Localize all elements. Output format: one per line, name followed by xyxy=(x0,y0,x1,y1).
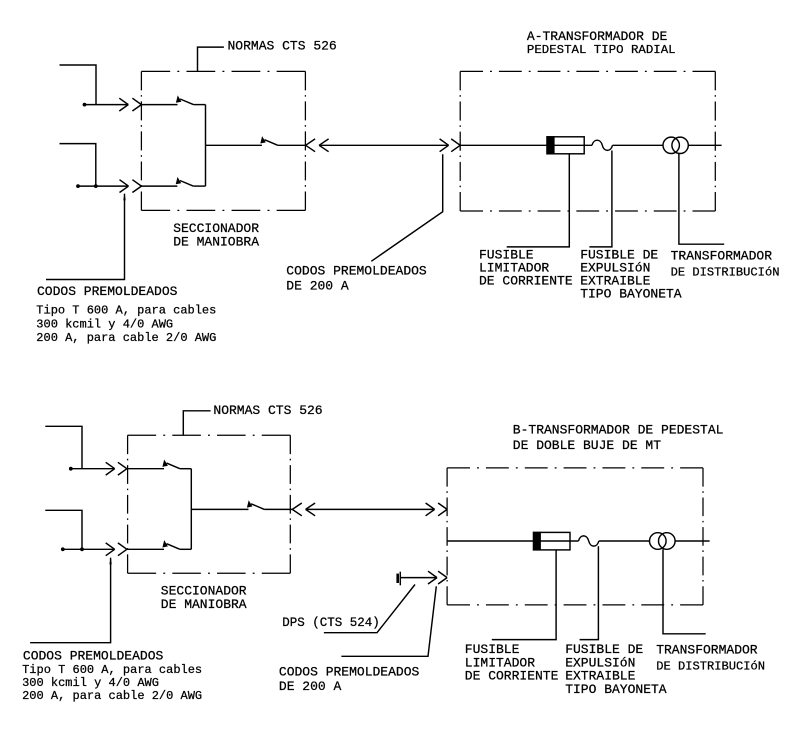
svg-text:CODOS PREMOLDEADOS: CODOS PREMOLDEADOS xyxy=(279,664,420,679)
box: transformador A dashed enclosure xyxy=(460,71,715,211)
switch S2 blade xyxy=(176,177,194,186)
wire: bus to output switch (bottom) xyxy=(191,508,248,510)
fuse F1 cap filled xyxy=(546,136,554,154)
connector: elbow chevron 2a (bottom) xyxy=(106,543,115,556)
node: feeder 1 terminal dot (bottom) xyxy=(69,467,73,471)
connector: entry chevron right 2 (bottom) xyxy=(438,503,447,516)
wire: DPS to box edge xyxy=(401,577,437,579)
switch S3 blade (bottom) xyxy=(247,500,265,509)
wire: bus to output switch xyxy=(206,144,262,146)
connector: DPS chevron 2 xyxy=(438,571,447,584)
svg-text:DE MANIOBRA: DE MANIOBRA xyxy=(161,597,247,612)
wire: input feeder 1 elbow stub (bottom) xyxy=(45,426,82,468)
svg-text:DE DISTRIBUCIóN: DE DISTRIBUCIóN xyxy=(656,659,765,673)
leader: fusible limitador (top) xyxy=(507,154,570,247)
leader: NORMAS CTS 526 (bottom) xyxy=(183,411,210,436)
wire: feeder 2 inside box xyxy=(141,185,177,187)
fuse F1 current limiting body (bottom) xyxy=(534,532,571,550)
wire: vertical bus (bottom) xyxy=(190,469,192,550)
connector: exit chevron left 1 xyxy=(306,139,316,152)
wire: S1 to bus xyxy=(193,104,205,106)
connector: exit chevron left 2 xyxy=(319,139,329,152)
leader: fusible expulsion (bottom) xyxy=(580,546,599,639)
wire: feeder 1 horizontal (bottom) xyxy=(71,468,115,470)
leader: transformador distribucion (bottom) xyxy=(663,549,706,634)
svg-text:PEDESTAL TIPO RADIAL: PEDESTAL TIPO RADIAL xyxy=(527,43,676,57)
switch S3 blade xyxy=(260,136,278,145)
wire: link between boxes (bottom) xyxy=(306,508,435,510)
wire: S2 to bus xyxy=(193,185,205,187)
leader: transformador distribucion (top) xyxy=(679,154,724,245)
fuse F2 expulsion squiggle (bottom) xyxy=(579,536,599,546)
connector: exit chevron left 1 (bottom) xyxy=(292,503,302,516)
svg-text:DE MANIOBRA: DE MANIOBRA xyxy=(173,235,259,250)
svg-text:DE DISTRIBUCIóN: DE DISTRIBUCIóN xyxy=(671,266,780,280)
svg-text:DPS (CTS 524): DPS (CTS 524) xyxy=(282,616,380,630)
wire: feeder 2 horizontal (bottom) xyxy=(63,548,115,550)
svg-text:DE CORRIENTE: DE CORRIENTE xyxy=(479,274,573,289)
connector: entry chevron right 2 xyxy=(451,139,460,152)
transformer T1 circle 1 xyxy=(663,137,679,153)
wire: S3 to box edge xyxy=(278,144,306,146)
node: feeder 2 terminal dot xyxy=(76,184,80,188)
leader: codos premoldeados left (bottom) with up arrow xyxy=(109,557,111,564)
connector: elbow chevron 2a xyxy=(120,180,129,193)
leader: fusible expulsion (top) xyxy=(589,151,612,247)
leader: NORMAS CTS 526 (top) xyxy=(198,47,224,71)
wire: squiggle to transformer xyxy=(613,144,664,146)
fuse F1 cap filled (bottom) xyxy=(533,532,541,551)
svg-text:200 A, para cable 2/0 AWG: 200 A, para cable 2/0 AWG xyxy=(36,331,216,345)
connector: elbow chevron 1b xyxy=(132,98,141,111)
svg-text:DE CORRIENTE: DE CORRIENTE xyxy=(465,669,559,684)
wire: feeder 1 inside box (bottom) xyxy=(127,468,164,470)
connector: entry chevron right 1 (bottom) xyxy=(426,503,435,516)
wire: input feeder 1 elbow stub xyxy=(60,65,97,105)
connector: elbow chevron 1b (bottom) xyxy=(118,462,127,475)
leader: DPS label xyxy=(324,585,415,633)
wire: feeder 1 horizontal into switchgear xyxy=(85,104,129,106)
wire: feeder 1 inside box xyxy=(141,104,177,106)
svg-text:TRANSFORMADOR: TRANSFORMADOR xyxy=(671,249,773,264)
svg-text:CODOS PREMOLDEADOS: CODOS PREMOLDEADOS xyxy=(23,648,164,663)
DPS surge arrester symbol xyxy=(396,574,399,583)
svg-text:DE DOBLE BUJE DE MT: DE DOBLE BUJE DE MT xyxy=(513,438,661,453)
wire: input feeder 2 elbow stub (bottom) xyxy=(45,510,82,549)
leader: codos premoldeados 200A (top) xyxy=(371,154,442,261)
node: feeder 2 terminal dot (bottom) xyxy=(61,547,65,551)
connector: DPS chevron 1 xyxy=(428,571,437,584)
box: seccionador dashed enclosure (bottom) xyxy=(128,435,291,573)
svg-text:CODOS PREMOLDEADOS: CODOS PREMOLDEADOS xyxy=(37,284,178,299)
connector: elbow chevron 2b xyxy=(132,180,141,193)
connector: elbow chevron 1a xyxy=(119,98,128,111)
wire: S2 to bus (bottom) xyxy=(180,548,191,550)
connector: elbow chevron 2b (bottom) xyxy=(118,543,127,556)
wire: feeder 2 horizontal xyxy=(78,185,129,187)
leader: codos premoldeados left (top) with up arrow xyxy=(123,193,125,200)
svg-text:TRANSFORMADOR: TRANSFORMADOR xyxy=(656,642,758,657)
switch S1 blade xyxy=(176,95,194,104)
switch S1 blade (bottom) xyxy=(162,460,180,469)
svg-text:CODOS PREMOLDEADOS: CODOS PREMOLDEADOS xyxy=(286,264,427,279)
svg-text:A-TRANSFORMADOR DE: A-TRANSFORMADOR DE xyxy=(527,29,668,44)
wire: transformer output xyxy=(688,144,721,146)
fuse F2 expulsion squiggle xyxy=(592,140,613,150)
svg-text:Tipo T 600 A, para cables: Tipo T 600 A, para cables xyxy=(22,663,202,677)
wire: link between boxes xyxy=(319,144,449,146)
svg-text:TIPO BAYONETA: TIPO BAYONETA xyxy=(565,682,667,697)
svg-text:NORMAS CTS 526: NORMAS CTS 526 xyxy=(213,403,322,418)
node: feeder 2 junction dot (bottom) xyxy=(80,547,84,551)
transformer T1 circle 2 xyxy=(672,137,688,153)
connector: exit chevron left 2 (bottom) xyxy=(306,503,316,516)
svg-text:DE 200 A: DE 200 A xyxy=(279,679,342,694)
box: seccionador dashed enclosure (top) xyxy=(141,71,305,210)
connector: entry chevron right 1 xyxy=(440,139,449,152)
node: feeder 1 terminal dot xyxy=(83,103,87,107)
svg-text:NORMAS CTS 526: NORMAS CTS 526 xyxy=(228,38,337,53)
box: transformador B dashed enclosure xyxy=(447,468,703,605)
wire: feeder 2 inside box (bottom) xyxy=(127,548,164,550)
svg-text:300 kcmil y 4/0 AWG: 300 kcmil y 4/0 AWG xyxy=(22,676,159,690)
transformer T2 circle 2 xyxy=(659,533,676,550)
wire: input feeder 2 elbow stub xyxy=(60,144,96,187)
wire: vertical bus of seccionador xyxy=(205,105,207,187)
wire: S1 to bus (bottom) xyxy=(180,468,191,470)
switch S2 blade (bottom) xyxy=(162,540,180,549)
svg-text:TIPO BAYONETA: TIPO BAYONETA xyxy=(580,287,682,302)
wire: transformer output (bottom) xyxy=(675,540,710,542)
svg-text:DE 200 A: DE 200 A xyxy=(286,279,349,294)
svg-text:B-TRANSFORMADOR DE PEDESTAL: B-TRANSFORMADOR DE PEDESTAL xyxy=(513,422,724,437)
fuse F1 current limiting: body xyxy=(547,137,584,154)
transformer T2 circle 1 xyxy=(650,533,667,550)
svg-text:200 A, para cable 2/0 AWG: 200 A, para cable 2/0 AWG xyxy=(22,689,202,703)
wire: S3 to box edge (bottom) xyxy=(264,508,292,510)
wire: box A internal line to fuse xyxy=(460,144,592,146)
leader: codos premoldeados 200A (bottom) xyxy=(341,586,436,656)
connector: elbow chevron 1a (bottom) xyxy=(106,462,115,475)
svg-text:300 kcmil y 4/0 AWG: 300 kcmil y 4/0 AWG xyxy=(36,317,173,331)
wire: box B internal line to fuse xyxy=(447,540,578,542)
leader: fusible limitador (bottom) xyxy=(492,550,556,640)
node: feeder 2 junction dot xyxy=(94,184,98,188)
svg-text:Tipo T 600 A, para cables: Tipo T 600 A, para cables xyxy=(36,304,216,318)
wire: squiggle to transformer (bottom) xyxy=(599,540,650,542)
